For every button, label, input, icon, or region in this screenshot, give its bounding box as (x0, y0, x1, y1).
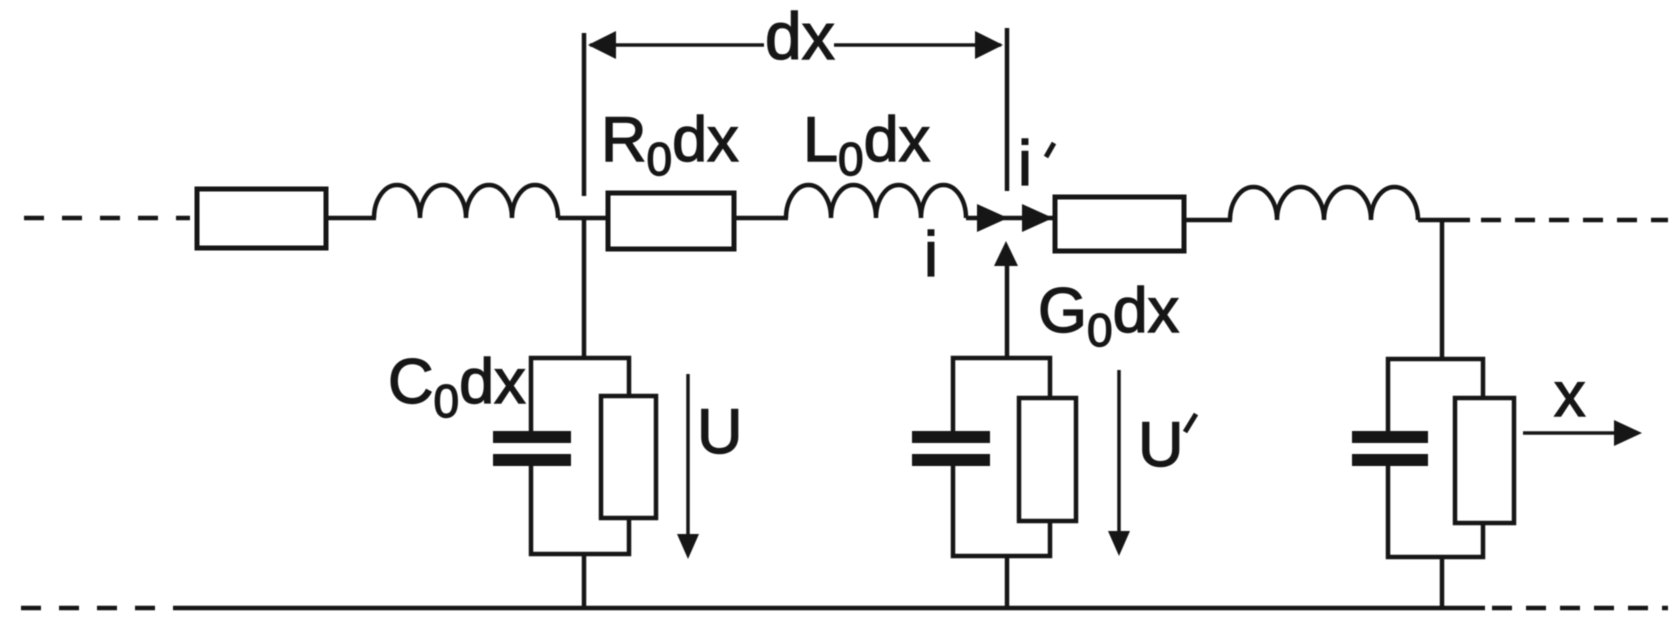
inductor (right section) (1230, 187, 1418, 220)
node B: dx dimension tick (right) (1005, 28, 1010, 191)
svg-text:L0dx: L0dx (803, 105, 930, 185)
resistor R0dx (608, 193, 734, 249)
shunt resistor box 3 (1455, 398, 1514, 523)
wire: loop 1 to bottom rail (582, 554, 587, 609)
wire: loop 2 to bottom rail (1005, 556, 1010, 609)
svg-text:C0dx: C0dx (388, 347, 526, 427)
svg-text:x: x (1554, 360, 1586, 430)
voltage arrow U' (1108, 370, 1130, 556)
wire: R0dx to L0dx (734, 216, 788, 221)
capacitor (shunt 3 plates) (1352, 431, 1428, 466)
shunt loop 1 (C0dx parallel G0) (531, 358, 629, 554)
inductor L0dx (786, 185, 966, 218)
svg-text:G0dx: G0dx (1038, 276, 1179, 356)
wire: loop 3 to bottom rail (1440, 557, 1445, 609)
wire: bottom-left dashed line (21, 606, 180, 611)
wire: shunt branch 2 down from node B (1005, 264, 1010, 360)
shunt resistor box 1 (601, 396, 656, 518)
wire: L0dx through node B to right box (966, 216, 1056, 221)
wire: box to left inductor (326, 216, 376, 221)
svg-text:dx: dx (765, 0, 835, 73)
axis arrow x (1523, 420, 1642, 446)
dimension arrow dx (588, 31, 1003, 59)
resistor box (left section series impedance) (197, 189, 326, 248)
wire: shunt branch 3 down from node C (1440, 220, 1445, 361)
resistor box (right section series impedance) (1055, 197, 1184, 251)
node A: dx dimension tick (left) (582, 33, 587, 196)
wire: top-left dashed line (24, 216, 190, 221)
wire: bottom-right dashed line (1492, 606, 1668, 611)
shunt loop 3 (under node C) (1388, 359, 1483, 557)
svg-text:U: U (1138, 410, 1184, 480)
svg-text:i: i (1018, 129, 1032, 199)
capacitor (shunt 2 plates) (912, 431, 990, 466)
current arrow i' (arrowhead out of node B) (1022, 204, 1053, 232)
inductor (left section) (374, 185, 558, 218)
voltage arrow U (677, 374, 699, 559)
wire: right box to right inductor (1184, 218, 1232, 223)
wire: inductor to node C (1418, 218, 1470, 223)
wire: inductor to node A (558, 216, 610, 221)
svg-text:R0dx: R0dx (601, 105, 739, 185)
label i' (1018, 129, 1054, 199)
current arrow for G0dx branch (up arrowhead) (994, 241, 1018, 266)
capacitor C0dx (plates) (493, 431, 571, 466)
shunt loop 2 (under node B) (953, 358, 1050, 556)
label U' (1138, 410, 1196, 480)
wire: top-right dashed line (1481, 218, 1668, 223)
wire: bottom rail solid (180, 606, 1485, 611)
svg-text:U: U (697, 397, 743, 467)
current arrow i (arrowhead into node B) (977, 204, 1008, 232)
svg-text:i: i (924, 220, 938, 290)
shunt resistor box 2 (1019, 398, 1076, 521)
wire: shunt branch 1 down from node A (582, 216, 587, 360)
